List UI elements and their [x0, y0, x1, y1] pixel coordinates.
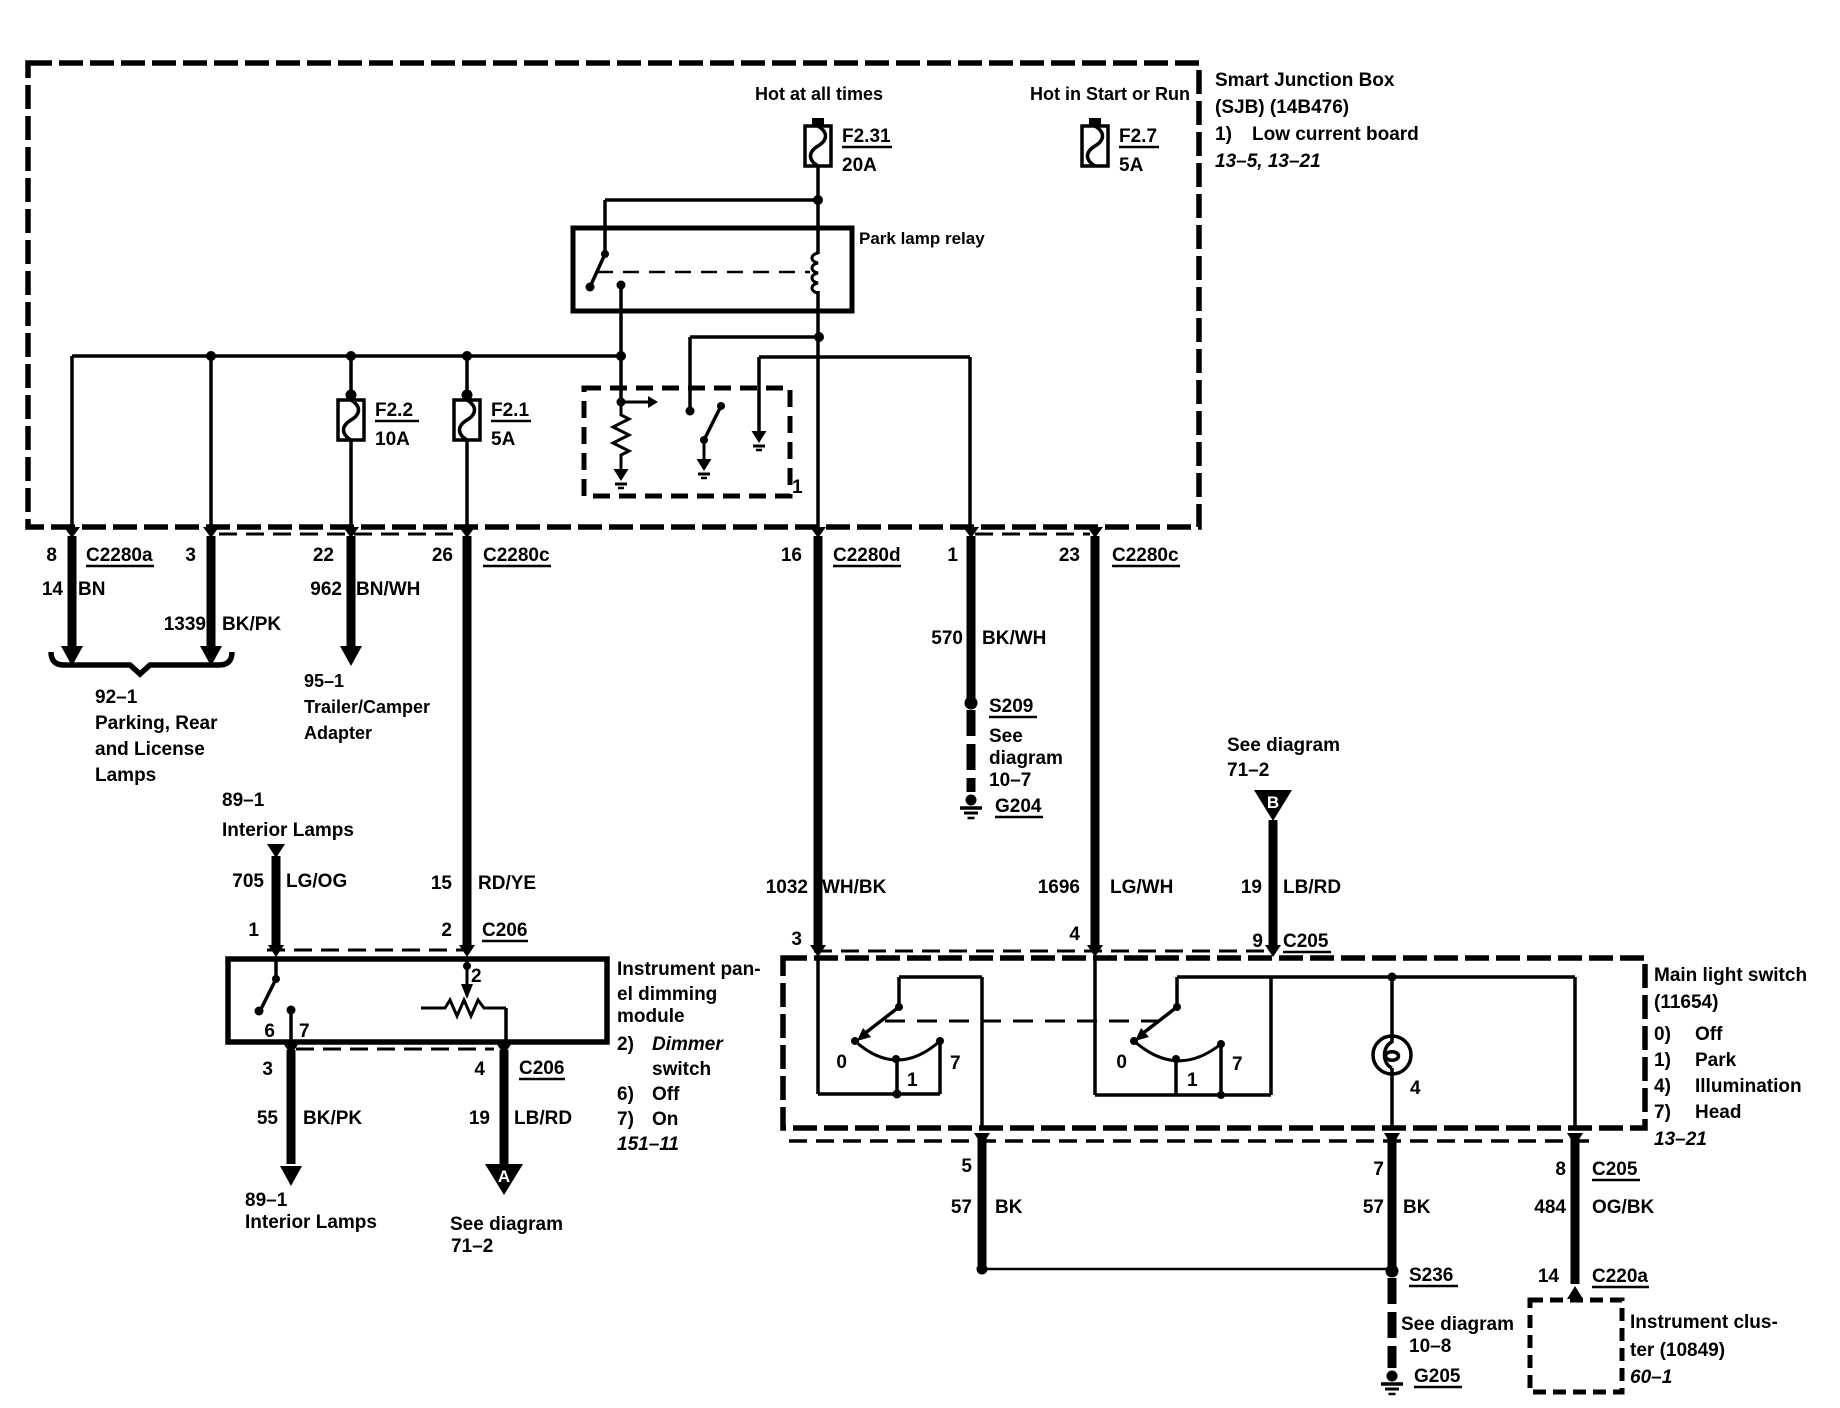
wire 484 OG/BK from pin 8 to instrument cluster [1534, 1138, 1654, 1284]
node: junction to splice link [977, 1264, 988, 1275]
svg-text:5A: 5A [491, 429, 516, 450]
svg-text:C2280d: C2280d [833, 545, 901, 566]
svg-text:A: A [498, 1167, 510, 1186]
svg-text:2: 2 [441, 920, 452, 941]
svg-text:Parking, Rear: Parking, Rear [95, 713, 218, 734]
wire: relay contact down into assembly box [619, 285, 623, 400]
wire 962 BN/WH to trailer adapter [310, 536, 420, 648]
connector C205 dashed line (bottom) [789, 1139, 1589, 1143]
svg-text:89–1: 89–1 [245, 1190, 288, 1211]
svg-text:Head: Head [1695, 1102, 1741, 1123]
connector pin 4 C206 [474, 1043, 565, 1080]
svg-text:151–11: 151–11 [617, 1134, 679, 1155]
svg-text:5A: 5A [1119, 155, 1144, 176]
svg-text:16: 16 [781, 545, 802, 566]
svg-text:LB/RD: LB/RD [1283, 877, 1341, 898]
svg-text:Park: Park [1695, 1050, 1737, 1071]
wire 1696 LG/WH from pin 23 to main light switch pin 4 [1038, 536, 1174, 945]
svg-text:G205: G205 [1414, 1366, 1461, 1387]
svg-text:13–5, 13–21: 13–5, 13–21 [1215, 151, 1321, 172]
wire 570 BK/WH from pin 1 to ground [931, 536, 1046, 700]
svg-text:7): 7) [617, 1109, 634, 1130]
svg-text:F2.1: F2.1 [491, 400, 529, 421]
wire: dashed to ground G204 (see diagram 10-7) [971, 710, 1063, 792]
svg-text:Off: Off [1695, 1024, 1723, 1045]
wire 55 BK/PK to interior lamps [257, 1050, 363, 1164]
wire: branch from fuse wire to relay switch [605, 200, 818, 254]
svg-text:962: 962 [310, 579, 342, 600]
wire: parking lamp feed bus [72, 356, 621, 528]
svg-text:484: 484 [1534, 1197, 1566, 1218]
svg-text:3: 3 [262, 1059, 273, 1080]
svg-text:F2.7: F2.7 [1119, 126, 1157, 147]
illumination lamp (4) [1373, 977, 1421, 1130]
wire 19 LB/RD to marker A [469, 1050, 572, 1165]
svg-text:C206: C206 [482, 920, 527, 941]
node: bus junction pin 3 [206, 351, 216, 361]
label: source 89-1 Interior Lamps [222, 790, 354, 841]
svg-text:C2280c: C2280c [483, 545, 550, 566]
Smart Junction Box (SJB) dashed enclosure [28, 63, 1199, 527]
svg-text:1696: 1696 [1038, 877, 1080, 898]
svg-text:10–7: 10–7 [989, 770, 1031, 791]
main light switch box (dashed) [783, 958, 1645, 1128]
node: lamp feed junction [1388, 973, 1397, 982]
svg-text:F2.2: F2.2 [375, 400, 413, 421]
svg-text:71–2: 71–2 [451, 1236, 493, 1257]
svg-text:1): 1) [1654, 1050, 1671, 1071]
svg-text:Main light switch: Main light switch [1654, 965, 1807, 986]
dimmer rheostat in module [421, 959, 506, 1043]
connector pin 22 [313, 527, 359, 566]
svg-text:On: On [652, 1109, 678, 1130]
svg-text:9: 9 [1252, 931, 1263, 952]
connector pin 3 C205 [791, 929, 826, 957]
svg-text:1: 1 [792, 477, 803, 498]
wire 15 RD/YE from pin 26 to dimming module [431, 536, 536, 945]
svg-text:S209: S209 [989, 696, 1033, 717]
svg-text:RD/YE: RD/YE [478, 873, 536, 894]
svg-text:89–1: 89–1 [222, 790, 265, 811]
node: junction at fuse wire y200 [813, 195, 823, 205]
svg-text:0: 0 [836, 1052, 847, 1073]
svg-text:55: 55 [257, 1108, 279, 1129]
svg-text:13–21: 13–21 [1654, 1129, 1707, 1150]
svg-text:1: 1 [248, 920, 259, 941]
svg-text:0): 0) [1654, 1024, 1671, 1045]
relay switch contacts and arm [586, 250, 811, 292]
wire 1339 BK/PK to parking lamps [164, 536, 282, 648]
main light switch title block [1654, 965, 1807, 1150]
svg-text:BK: BK [995, 1197, 1023, 1218]
svg-text:1032: 1032 [766, 877, 808, 898]
splice S209 [965, 696, 1038, 717]
svg-text:Park lamp relay: Park lamp relay [859, 229, 985, 248]
svg-text:BK: BK [1403, 1197, 1431, 1218]
svg-text:2: 2 [471, 966, 482, 987]
connector pin 5 [961, 1133, 990, 1177]
svg-text:Interior Lamps: Interior Lamps [245, 1212, 377, 1233]
marker B: from see diagram 71-2 [1227, 735, 1340, 821]
svg-text:F2.31: F2.31 [842, 126, 891, 147]
svg-text:19: 19 [469, 1108, 490, 1129]
wire: switch output to pin 8 [1573, 977, 1577, 1130]
svg-text:Trailer/Camper: Trailer/Camper [304, 697, 430, 717]
svg-text:C2280a: C2280a [86, 545, 153, 566]
svg-text:S236: S236 [1409, 1265, 1453, 1286]
wire: assembly box ground feed to pin 1 [759, 357, 970, 528]
fuse F2.1 5A [454, 390, 531, 451]
connector pin 23 C2280c [1059, 527, 1180, 566]
svg-text:C205: C205 [1283, 931, 1329, 952]
svg-text:Interior Lamps: Interior Lamps [222, 820, 354, 841]
svg-text:23: 23 [1059, 545, 1080, 566]
relay coil [812, 253, 818, 293]
switch leg inside assembly box [686, 402, 726, 459]
svg-text:BK/PK: BK/PK [303, 1108, 362, 1129]
svg-text:5: 5 [961, 1156, 972, 1177]
connector pin 7 [1373, 1133, 1400, 1180]
wire: link to splice S236 [982, 1268, 1392, 1271]
fuse F2.31 20A [805, 118, 892, 176]
ground G204 [960, 795, 1043, 819]
connector C206 dashed line (top) [267, 949, 470, 952]
main light switch gang 2 (head circuit) [1095, 959, 1575, 1099]
svg-text:C220a: C220a [1592, 1266, 1648, 1287]
svg-text:4): 4) [1654, 1076, 1671, 1097]
fuse F2.7 5A [1082, 118, 1159, 176]
svg-text:95–1: 95–1 [304, 671, 344, 691]
node: bus junction fuse F2.1 [462, 351, 472, 361]
svg-text:1: 1 [907, 1070, 918, 1091]
brace: destination 92-1 parking rear and license lamps [51, 652, 232, 786]
dimming module title block [617, 959, 761, 1155]
node: bus junction fuse F2.2 [346, 351, 356, 361]
svg-text:1: 1 [947, 545, 958, 566]
svg-text:Lamps: Lamps [95, 765, 156, 786]
svg-text:60–1: 60–1 [1630, 1367, 1672, 1388]
main light switch gang 1 (park circuit) [818, 959, 982, 1130]
svg-text:57: 57 [951, 1197, 972, 1218]
svg-text:ter (10849): ter (10849) [1630, 1340, 1725, 1361]
svg-text:7: 7 [299, 1021, 310, 1042]
svg-text:3: 3 [185, 545, 196, 566]
ground: resistor leg ground arrow [614, 469, 629, 481]
connector pin 4 C205 [1069, 924, 1103, 957]
terminal arrow wire 55 [280, 1166, 302, 1186]
svg-text:8: 8 [1555, 1159, 1566, 1180]
svg-text:14: 14 [1538, 1266, 1560, 1287]
instrument cluster box (dashed) [1530, 1300, 1622, 1392]
svg-text:57: 57 [1363, 1197, 1384, 1218]
svg-text:See diagram: See diagram [1401, 1314, 1514, 1335]
connector C205 dashed line (top) [814, 950, 1275, 953]
wire: dashed to ground G205 (see diagram 10-8) [1392, 1278, 1514, 1368]
svg-text:7): 7) [1654, 1102, 1671, 1123]
svg-text:6): 6) [617, 1084, 634, 1105]
splice S236 [1386, 1265, 1459, 1287]
svg-text:and License: and License [95, 739, 205, 760]
node: junction of bus and relay contact wire [616, 351, 626, 361]
SJB internal assembly box 1 (dashed) [584, 388, 790, 496]
svg-text:22: 22 [313, 545, 334, 566]
marker A: see diagram 71-2 [450, 1164, 563, 1257]
svg-text:(SJB) (14B476): (SJB) (14B476) [1215, 97, 1349, 118]
connector pin 26 C2280c [432, 527, 551, 566]
svg-text:Adapter: Adapter [304, 723, 372, 743]
svg-text:2): 2) [617, 1034, 634, 1055]
dimmer on/off switch in module [255, 959, 310, 1043]
svg-text:Smart Junction Box: Smart Junction Box [1215, 70, 1395, 91]
svg-text:G204: G204 [995, 796, 1042, 817]
terminal triangle from interior lamps [267, 844, 285, 858]
fuse F2.2 10A [338, 390, 419, 451]
svg-text:Dimmer: Dimmer [652, 1034, 724, 1055]
svg-text:Hot in Start or Run: Hot in Start or Run [1030, 84, 1190, 104]
svg-text:Low current board: Low current board [1252, 124, 1419, 145]
wire: from pin16 wire to assembly box switch [690, 337, 819, 411]
connector pin 1 C206 (module side) [248, 920, 284, 957]
svg-text:BK/PK: BK/PK [222, 614, 281, 635]
ground G205 [1381, 1366, 1462, 1394]
connector pin 9 C205 [1252, 931, 1331, 957]
svg-text:1): 1) [1215, 124, 1232, 145]
svg-text:10–8: 10–8 [1409, 1336, 1451, 1357]
SJB title block [1215, 70, 1419, 172]
svg-text:20A: 20A [842, 155, 877, 176]
svg-text:C205: C205 [1592, 1159, 1638, 1180]
wire 57 BK from pin 5 [951, 1138, 1023, 1265]
svg-text:module: module [617, 1006, 685, 1027]
wire: fuse F2.31 down through relay coil to pin 16 [816, 166, 820, 528]
svg-text:Instrument pan-: Instrument pan- [617, 959, 761, 980]
wire: fuse F2.1 output to pin 26 [465, 440, 469, 528]
svg-text:See diagram: See diagram [450, 1214, 563, 1235]
svg-text:See diagram: See diagram [1227, 735, 1340, 756]
svg-text:Illumination: Illumination [1695, 1076, 1802, 1097]
svg-text:71–2: 71–2 [1227, 760, 1269, 781]
svg-text:switch: switch [652, 1059, 711, 1080]
terminal arrow wire 962 [340, 646, 362, 666]
svg-text:0: 0 [1116, 1052, 1127, 1073]
svg-text:1: 1 [1187, 1070, 1198, 1091]
connector pin 3 C206 [262, 1043, 299, 1080]
connector pin 1 [947, 527, 979, 566]
svg-text:LG/OG: LG/OG [286, 871, 347, 892]
connector pin 2 C206 (module side) [459, 945, 475, 957]
ground: switch leg ground arrow [697, 459, 712, 471]
svg-text:19: 19 [1241, 877, 1262, 898]
svg-text:26: 26 [432, 545, 453, 566]
connector C2280c dashed line (pins 22-26) [219, 533, 462, 536]
svg-text:7: 7 [950, 1053, 961, 1074]
svg-text:BN: BN [78, 579, 105, 600]
svg-text:10A: 10A [375, 429, 410, 450]
svg-text:BK/WH: BK/WH [982, 628, 1046, 649]
svg-text:LG/WH: LG/WH [1110, 877, 1173, 898]
resistor leg inside assembly box [613, 396, 658, 469]
svg-text:BN/WH: BN/WH [356, 579, 420, 600]
connector C206 dashed line (bottom) [296, 1048, 494, 1051]
connector pin 3 [185, 527, 219, 566]
wire 1032 WH/BK from pin 16 to main light switch pin 3 [766, 536, 887, 945]
svg-text:8: 8 [46, 545, 57, 566]
svg-text:(11654): (11654) [1654, 992, 1718, 1013]
wire 705 LG/OG into dimming module pin 1 [232, 856, 347, 945]
svg-text:OG/BK: OG/BK [1592, 1197, 1655, 1218]
terminal arrow wire 14 [61, 646, 83, 666]
label: destination 95-1 Trailer/Camper Adapter [304, 671, 430, 743]
svg-text:Hot at all times: Hot at all times [755, 84, 883, 104]
svg-text:el dimming: el dimming [617, 984, 717, 1005]
svg-text:C2280c: C2280c [1112, 545, 1179, 566]
connector C2280c dashed line (pins 1-23) [975, 533, 1090, 536]
connector pin 14 C220a [1538, 1266, 1649, 1299]
svg-text:4: 4 [474, 1059, 485, 1080]
svg-text:C206: C206 [519, 1058, 564, 1079]
svg-text:diagram: diagram [989, 748, 1063, 769]
label: pin 2 and C206 [441, 920, 528, 941]
svg-text:See: See [989, 726, 1023, 747]
node: junction on pin16 wire at y337 [814, 332, 824, 342]
svg-text:LB/RD: LB/RD [514, 1108, 572, 1129]
connector pin 16 C2280d [781, 527, 901, 566]
svg-text:7: 7 [1232, 1054, 1243, 1075]
svg-text:570: 570 [931, 628, 963, 649]
svg-text:Instrument clus-: Instrument clus- [1630, 1312, 1778, 1333]
relay: park lamp relay box [573, 228, 852, 311]
connector pin 8 C2280a [46, 527, 154, 566]
svg-text:B: B [1267, 793, 1279, 812]
svg-text:1339: 1339 [164, 614, 206, 635]
svg-text:4: 4 [1410, 1078, 1421, 1099]
svg-text:Off: Off [652, 1084, 680, 1105]
svg-text:92–1: 92–1 [95, 687, 138, 708]
wire 19 LB/RD from marker B to pin 9 [1241, 820, 1341, 945]
svg-text:14: 14 [42, 579, 64, 600]
mechanical linkage dashed line [885, 1020, 1160, 1023]
svg-text:15: 15 [431, 873, 453, 894]
svg-text:7: 7 [1373, 1159, 1384, 1180]
svg-text:WH/BK: WH/BK [822, 877, 887, 898]
wire: fuse F2.2 output to pin 22 [349, 440, 353, 528]
svg-text:6: 6 [264, 1021, 275, 1042]
svg-text:705: 705 [232, 871, 264, 892]
svg-text:4: 4 [1069, 924, 1080, 945]
connector pin 8 C205 [1555, 1133, 1640, 1180]
ground: stub ground connected to pin 1 [752, 431, 767, 443]
instrument panel dimming module box [228, 959, 607, 1042]
instrument cluster title block [1630, 1312, 1778, 1388]
svg-text:3: 3 [791, 929, 802, 950]
terminal arrow wire 1339 [200, 646, 222, 666]
wire 57 BK from pin 7 to ground [1363, 1138, 1431, 1267]
wire 14 BN to parking lamps [42, 536, 106, 648]
label: destination 89-1 Interior Lamps [245, 1190, 377, 1233]
